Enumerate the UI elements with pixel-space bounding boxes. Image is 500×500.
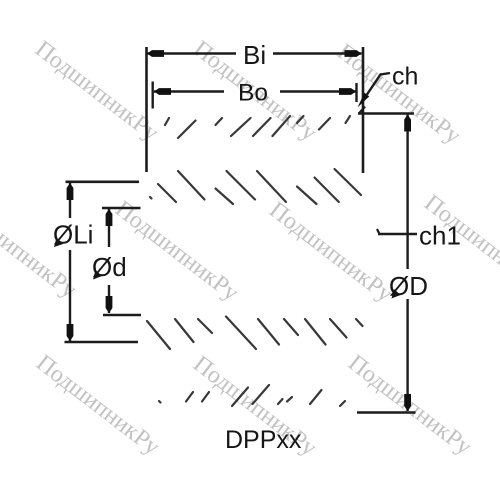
Bo left extension tick (151, 82, 153, 109)
label Od slash tail (93, 270, 102, 280)
watermark row2 a (0, 193, 81, 304)
hatch band 4 (outer shell bottom, / direction) (159, 385, 345, 406)
label OD slash tail (392, 289, 401, 299)
svg-text:ch: ch (392, 63, 418, 91)
OLi top extension line (66, 181, 140, 184)
dimension OD line (406, 115, 408, 412)
Bo right arrow (339, 88, 356, 95)
Od bottom arrow (106, 296, 113, 313)
svg-text:ch1: ch1 (419, 221, 461, 251)
hatch band 1 (outer shell top, / direction) (165, 116, 350, 138)
Bi right arrow (345, 50, 362, 57)
chamfer edge (359, 107, 365, 114)
OD top arrow (404, 115, 411, 132)
watermark row1 b (188, 36, 321, 147)
svg-text:DPPxx: DPPxx (225, 426, 302, 454)
Bo left arrow (154, 88, 171, 95)
dimension Bi line (147, 52, 362, 54)
watermark row1 c (332, 39, 465, 150)
svg-text:Bo: Bo (238, 80, 268, 107)
watermark row2 c (264, 197, 397, 308)
ch leader line (367, 73, 390, 95)
svg-text:Bi: Bi (243, 40, 266, 70)
watermark row2 b (110, 196, 243, 307)
watermark row3 a (31, 350, 164, 461)
svg-text:ØD: ØD (389, 271, 428, 301)
Bo right extension tick (355, 83, 357, 102)
svg-text:ØLi: ØLi (53, 220, 93, 250)
dimension Bo line (154, 90, 356, 92)
OLi top arrow (67, 183, 74, 200)
label OLi slash tail (54, 238, 63, 248)
left face / Bi extension line (145, 47, 148, 172)
OD bottom arrow (404, 394, 411, 411)
OD bottom extension line (357, 411, 416, 414)
ch1 leader line (378, 233, 417, 235)
right face / Bi extension line (362, 47, 365, 173)
watermark row3 c (343, 350, 476, 461)
dimension OLi line (69, 183, 71, 341)
watermark row3 b (188, 351, 321, 462)
hatch band 3 (liner bottom, \ direction) (147, 317, 363, 350)
svg-text:Ød: Ød (92, 252, 127, 282)
Od top arrow (106, 209, 113, 226)
OD top extension line (358, 112, 414, 115)
watermark row2 d (419, 190, 500, 301)
Od top extension line (102, 207, 141, 210)
ch1 leader hook (377, 229, 380, 234)
OLi bottom arrow (67, 324, 74, 341)
OLi bottom extension line (65, 341, 139, 344)
Bi left arrow (147, 50, 164, 57)
Od bottom extension line (103, 314, 141, 317)
hatch band 2 (liner top, \ direction) (150, 169, 361, 204)
ch leader arrow (358, 93, 370, 108)
watermark row1 a (30, 36, 163, 147)
dimension Od line (108, 209, 110, 313)
